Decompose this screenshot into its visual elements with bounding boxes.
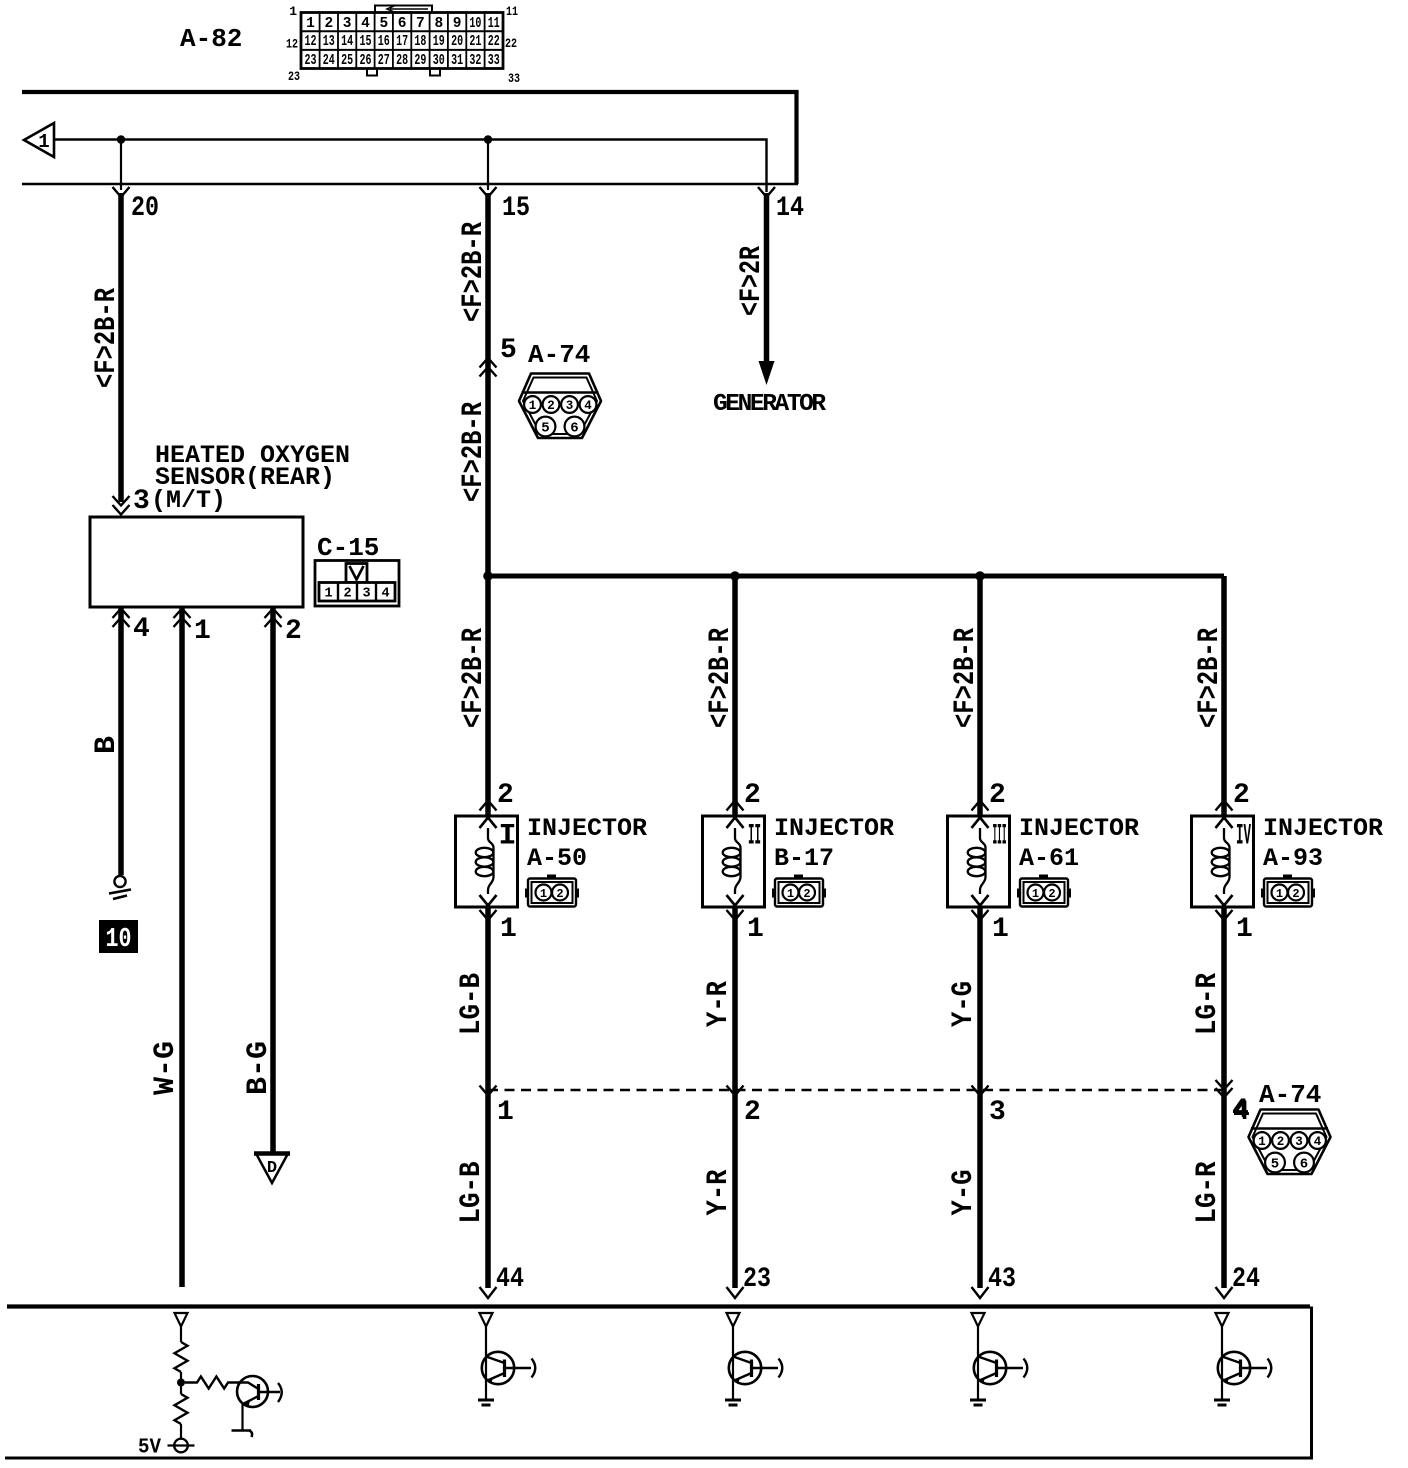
label (F)2B-R wire20 (90, 288, 124, 388)
wire pin20 drop (120, 140, 122, 191)
svg-text:III: III (993, 820, 1007, 854)
svg-text:12: 12 (305, 34, 317, 50)
injector 2 pin1 label (747, 914, 764, 945)
transistor Q5 (1218, 1352, 1271, 1384)
svg-text:15: 15 (360, 34, 372, 50)
label Y-G upper (947, 981, 981, 1027)
connector A-82 (286, 4, 520, 86)
ECU pin23 input triangle (727, 1313, 740, 1327)
svg-text:B: B (90, 736, 124, 754)
injector 3 pin2 arrow (972, 801, 989, 811)
svg-text:LG-B: LG-B (455, 1162, 489, 1224)
svg-text:2: 2 (324, 16, 333, 32)
pin 4 arrow (113, 609, 130, 628)
generator arrow (759, 361, 775, 385)
heated oxygen sensor box (90, 517, 303, 607)
svg-text:5: 5 (379, 16, 388, 32)
svg-text:8: 8 (434, 16, 443, 32)
transistor Q4 (974, 1352, 1027, 1384)
injector 4 name (1263, 814, 1383, 873)
pin 20 label (131, 193, 159, 224)
svg-text:5: 5 (1271, 1157, 1279, 1173)
svg-text:4: 4 (133, 614, 150, 645)
injector 2 pin2 arrow (727, 801, 744, 811)
svg-text:14: 14 (341, 34, 353, 50)
injector 3 pin2 label (989, 780, 1006, 811)
connector C-15 (315, 561, 399, 607)
svg-text:2: 2 (285, 616, 302, 647)
svg-text:1: 1 (324, 587, 332, 602)
svg-text:Y-G: Y-G (947, 1170, 981, 1216)
pin 15 arrow (480, 187, 497, 197)
label A-74 top (528, 340, 590, 370)
pin 1 label (194, 616, 211, 647)
svg-text:2: 2 (744, 1097, 761, 1128)
wire driver 2 (732, 1327, 734, 1354)
svg-text:B-17: B-17 (774, 844, 834, 873)
svg-text:3: 3 (343, 16, 352, 32)
pin 43 label (988, 1264, 1016, 1295)
svg-text:A-82: A-82 (180, 24, 242, 54)
ECU pin43 input triangle (972, 1313, 985, 1327)
svg-text:26: 26 (360, 53, 372, 69)
svg-text:(M/T): (M/T) (151, 486, 226, 515)
svg-text:1: 1 (497, 1097, 514, 1128)
svg-text:A-61: A-61 (1019, 844, 1079, 873)
svg-text:1: 1 (787, 887, 794, 901)
svg-text:A-74: A-74 (528, 340, 590, 370)
svg-text:28: 28 (396, 53, 408, 69)
svg-text:9: 9 (453, 16, 462, 32)
dashed node arrow 4 (1216, 1080, 1233, 1098)
resistor R1 (175, 1342, 188, 1372)
svg-text:Y-G: Y-G (947, 981, 981, 1027)
injector 3 name (1019, 814, 1139, 873)
resistor R2 (175, 1394, 188, 1424)
label (F)2B-R injector 4 (1193, 628, 1227, 728)
wire B-G (270, 607, 276, 1153)
label (F)2R wire14 (735, 246, 769, 316)
svg-text:3: 3 (133, 486, 150, 517)
svg-text:5: 5 (541, 421, 549, 437)
pin 24 arrow (1216, 1287, 1233, 1298)
svg-text:2: 2 (497, 780, 514, 811)
injector 2 pin2 label (744, 780, 761, 811)
svg-text:B-G: B-G (242, 1041, 276, 1095)
pin 14 arrow (758, 187, 775, 197)
injector 3 pin1 label (992, 914, 1009, 945)
svg-text:11: 11 (488, 16, 500, 32)
pin 44 label (496, 1264, 524, 1295)
label (F)2B-R injector 3 (949, 628, 983, 728)
injector 2 (B-17) (703, 816, 765, 907)
svg-text:6: 6 (398, 16, 407, 32)
wire main feed (54, 140, 767, 193)
svg-text:Y-R: Y-R (702, 1170, 736, 1216)
injector 2 pin1 arrow (727, 910, 744, 920)
svg-text:1: 1 (1032, 887, 1039, 901)
label B-G wire (242, 1041, 276, 1095)
svg-text:1: 1 (1236, 914, 1253, 945)
dashed node arrow 1 (480, 1086, 497, 1096)
svg-text:10: 10 (469, 16, 481, 32)
ground Q4 (970, 1400, 986, 1405)
injector 1 pin2 label (497, 780, 514, 811)
svg-text:1: 1 (306, 16, 315, 32)
svg-text:II: II (748, 820, 761, 854)
pin 4 label (133, 614, 150, 645)
wire bus to injector 2 (732, 576, 738, 816)
svg-text:<F>2R: <F>2R (735, 246, 769, 316)
label A-74 bottom (1259, 1080, 1321, 1110)
pin 14 label (776, 193, 804, 224)
svg-text:31: 31 (451, 53, 463, 69)
svg-text:3: 3 (362, 587, 370, 602)
svg-text:2: 2 (343, 587, 351, 602)
ground Q5 (1214, 1400, 1230, 1405)
pin 23 label (743, 1264, 771, 1295)
svg-text:16: 16 (378, 34, 390, 50)
ground Q3 (725, 1400, 741, 1405)
svg-text:43: 43 (988, 1264, 1016, 1295)
5V source symbol (168, 1439, 195, 1453)
label 5V (138, 1437, 161, 1460)
svg-text:W-G: W-G (149, 1041, 183, 1095)
label Y-R lower (702, 1170, 736, 1216)
dashed node label 1 (497, 1097, 514, 1128)
svg-text:23: 23 (743, 1264, 771, 1295)
injector 4 (A-93) (1192, 816, 1254, 907)
ground Q1 (232, 1431, 253, 1438)
svg-text:24: 24 (323, 53, 335, 69)
svg-text:33: 33 (508, 71, 520, 86)
wire Q3 emitter (732, 1384, 734, 1399)
wire R2-5V (180, 1424, 182, 1439)
pin 2 label (285, 616, 302, 647)
wire B (118, 607, 124, 875)
wire R1-R2 (180, 1372, 182, 1394)
svg-text:6: 6 (570, 421, 578, 437)
svg-text:17: 17 (396, 34, 408, 50)
junction dot pin15 (484, 135, 493, 144)
wire Q4 emitter (977, 1384, 979, 1399)
dashed node arrow 3 (972, 1086, 989, 1096)
svg-text:20: 20 (131, 193, 159, 224)
svg-text:1: 1 (1258, 1135, 1266, 1149)
svg-text:1: 1 (38, 131, 49, 153)
label (F)2B-R wire15 lower (457, 402, 491, 502)
label heated oxygen sensor (151, 441, 350, 515)
svg-text:<F>2B-R: <F>2B-R (1193, 628, 1227, 728)
svg-text:LG-B: LG-B (455, 973, 489, 1035)
svg-text:2: 2 (1048, 887, 1055, 901)
wire pin15 drop (487, 140, 489, 191)
wire bus to injector 3 (977, 576, 983, 816)
wire driver 4 (1221, 1327, 1223, 1354)
dashed node label 2 (744, 1097, 761, 1128)
transistor Q3 (729, 1352, 782, 1384)
transistor Q2 (482, 1352, 535, 1384)
svg-text:11: 11 (506, 4, 518, 19)
svg-text:1: 1 (1276, 887, 1283, 901)
connector A-74 bottom (1249, 1110, 1331, 1175)
wire (F)2B-R to sensor (118, 193, 124, 502)
ground ref box 10 (99, 920, 138, 955)
label (F)2B-R injector 1 (457, 628, 491, 728)
svg-text:3: 3 (566, 399, 574, 413)
svg-text:27: 27 (378, 53, 390, 69)
ECU pin47 input triangle (175, 1313, 188, 1327)
svg-text:4: 4 (1314, 1135, 1322, 1149)
svg-text:A-74: A-74 (1259, 1080, 1321, 1110)
injector 4 pin1 label (1236, 914, 1253, 945)
pin 2 arrow (265, 609, 282, 628)
label B wire (90, 736, 124, 754)
svg-text:25: 25 (341, 53, 353, 69)
svg-text:5: 5 (500, 335, 517, 366)
wire Q5 emitter (1221, 1384, 1223, 1399)
svg-text:2: 2 (803, 887, 810, 901)
wire bus to injector 1 (485, 576, 491, 816)
label LG-B upper (455, 973, 489, 1035)
connector A-74 top (519, 374, 601, 439)
label W-G wire (149, 1041, 183, 1095)
label (F)2B-R injector 2 (704, 628, 738, 728)
wire injector bus (488, 574, 1224, 579)
svg-text:12: 12 (286, 37, 298, 52)
pin 3 label (133, 486, 150, 517)
svg-text:<F>2B-R: <F>2B-R (457, 402, 491, 502)
svg-text:2: 2 (744, 780, 761, 811)
svg-text:2: 2 (1277, 1135, 1285, 1149)
svg-text:5V: 5V (138, 1437, 161, 1460)
pin 43 arrow (972, 1287, 989, 1298)
resistor R3 (185, 1377, 240, 1389)
wire driver 1 (485, 1327, 487, 1354)
svg-text:LG-R: LG-R (1191, 1162, 1225, 1224)
svg-text:1: 1 (747, 914, 764, 945)
svg-text:<F>2B-R: <F>2B-R (90, 288, 124, 388)
svg-text:A-93: A-93 (1263, 844, 1323, 873)
pin 1 arrow (174, 609, 191, 628)
pin 3 arrow (113, 496, 130, 515)
wire Y-G upper (977, 907, 983, 1288)
svg-text:7: 7 (416, 16, 425, 32)
svg-text:INJECTOR: INJECTOR (1019, 814, 1139, 843)
label LG-B lower (455, 1162, 489, 1224)
svg-text:C-15: C-15 (317, 533, 379, 563)
pin 5 label (500, 335, 517, 366)
label (F)2B-R wire15 upper (457, 222, 491, 322)
svg-text:INJECTOR: INJECTOR (527, 814, 647, 843)
label Y-G lower (947, 1170, 981, 1216)
wire pin15 to bus (485, 193, 491, 578)
svg-text:20: 20 (451, 34, 463, 50)
junction dot pin20 (117, 135, 126, 144)
pin 15 label (502, 193, 530, 224)
junction dot bus3 (975, 571, 985, 581)
dashed node arrow 2 (727, 1086, 744, 1096)
pin 44 arrow (480, 1287, 497, 1298)
svg-text:1: 1 (289, 4, 297, 19)
svg-text:IV: IV (1236, 820, 1251, 854)
dashed node label 4 (1233, 1097, 1250, 1128)
svg-text:INJECTOR: INJECTOR (774, 814, 894, 843)
ECU pin24 input triangle (1216, 1313, 1229, 1327)
injector 3 pin1 arrow (972, 910, 989, 920)
svg-text:4: 4 (361, 16, 370, 32)
svg-text:<F>2B-R: <F>2B-R (457, 628, 491, 728)
svg-text:14: 14 (776, 193, 804, 224)
svg-text:22: 22 (505, 36, 517, 51)
wire 47 internal (180, 1327, 182, 1343)
injector 3 connector icon (1017, 875, 1071, 907)
wire band top (22, 92, 797, 184)
svg-text:4: 4 (1232, 1095, 1249, 1126)
wire Q2 emitter (485, 1384, 487, 1399)
injector 4 pin1 arrow (1216, 910, 1233, 920)
injector 2 name (774, 814, 894, 873)
svg-text:21: 21 (469, 34, 481, 50)
svg-text:1: 1 (194, 616, 211, 647)
svg-text:Y-R: Y-R (702, 981, 736, 1027)
svg-text:44: 44 (496, 1264, 524, 1295)
injector 1 connector icon (525, 875, 579, 907)
svg-text:1: 1 (992, 914, 1009, 945)
pin 24 label (1232, 1264, 1260, 1295)
svg-text:<F>2B-R: <F>2B-R (457, 222, 491, 322)
label LG-R lower (1191, 1162, 1225, 1224)
label pin4 A-74 (1232, 1095, 1249, 1126)
svg-text:29: 29 (414, 53, 426, 69)
node triangle 1 (24, 123, 54, 157)
injector 1 pin2 arrow (480, 801, 497, 811)
junction dot bus2 (730, 571, 740, 581)
pin 5 arrow (480, 358, 497, 377)
ground Q2 (478, 1400, 494, 1405)
svg-text:22: 22 (488, 34, 500, 50)
svg-text:INJECTOR: INJECTOR (1263, 814, 1383, 843)
svg-text:1: 1 (500, 914, 517, 945)
svg-text:2: 2 (1292, 887, 1299, 901)
svg-text:A-50: A-50 (527, 844, 587, 873)
pin 20 arrow (113, 187, 130, 197)
wire LG-B upper (485, 907, 491, 1288)
svg-text:3: 3 (1295, 1135, 1303, 1149)
wire driver 3 (977, 1327, 979, 1354)
injector 1 pin1 arrow (480, 910, 497, 920)
svg-text:33: 33 (488, 53, 500, 69)
transistor Q1 (237, 1376, 282, 1407)
svg-text:I: I (498, 820, 516, 854)
node triangle D (254, 1154, 290, 1184)
pin 23 arrow (727, 1287, 744, 1298)
svg-text:24: 24 (1232, 1264, 1260, 1295)
injector 1 pin1 label (500, 914, 517, 945)
ECU box (5, 1307, 1313, 1459)
svg-text:2: 2 (1233, 780, 1250, 811)
svg-text:D: D (267, 1159, 277, 1178)
svg-text:4: 4 (584, 399, 592, 413)
label GENERATOR (713, 391, 826, 418)
svg-text:2: 2 (989, 780, 1006, 811)
svg-text:18: 18 (414, 34, 426, 50)
svg-text:30: 30 (433, 53, 445, 69)
svg-text:13: 13 (323, 34, 335, 50)
ECU pin44 input triangle (480, 1313, 493, 1327)
ground G10 (109, 876, 131, 899)
svg-text:6: 6 (1300, 1157, 1308, 1173)
dashed harness line (488, 1089, 1224, 1091)
label A-82 (180, 24, 242, 54)
junction dot divider (177, 1379, 185, 1387)
svg-text:2: 2 (547, 399, 555, 413)
svg-text:32: 32 (469, 53, 481, 69)
svg-text:15: 15 (502, 193, 530, 224)
svg-text:3: 3 (989, 1097, 1006, 1128)
injector 4 pin2 arrow (1216, 801, 1233, 811)
svg-text:23: 23 (305, 53, 317, 69)
junction dot bus1 (483, 571, 493, 581)
svg-text:23: 23 (288, 69, 300, 84)
svg-text:2: 2 (556, 887, 563, 901)
wire band bottom (22, 183, 798, 186)
wire bus to injector 4 (1221, 576, 1227, 816)
wire W-G (179, 607, 185, 1287)
injector 1 (A-50) (456, 816, 518, 907)
wire Q1 emitter (241, 1404, 243, 1430)
injector 2 connector icon (772, 875, 826, 907)
svg-text:GENERATOR: GENERATOR (713, 391, 826, 418)
svg-text:<F>2B-R: <F>2B-R (704, 628, 738, 728)
label C-15 (317, 533, 379, 563)
injector 3 (A-61) (948, 816, 1010, 907)
dashed node label 3 (989, 1097, 1006, 1128)
svg-text:19: 19 (433, 34, 445, 50)
injector 4 connector icon (1261, 875, 1315, 907)
svg-text:10: 10 (106, 925, 132, 955)
injector 4 pin2 label (1233, 780, 1250, 811)
wire Y-R upper (732, 907, 738, 1288)
svg-text:<F>2B-R: <F>2B-R (949, 628, 983, 728)
wire to generator (764, 193, 770, 363)
svg-text:LG-R: LG-R (1191, 973, 1225, 1035)
svg-text:4: 4 (381, 587, 389, 602)
injector 1 name (527, 814, 647, 873)
label Y-R upper (702, 981, 736, 1027)
wire LG-R upper (1221, 907, 1227, 1288)
svg-text:1: 1 (540, 887, 547, 901)
svg-text:1: 1 (529, 399, 537, 413)
label LG-R upper (1191, 973, 1225, 1035)
